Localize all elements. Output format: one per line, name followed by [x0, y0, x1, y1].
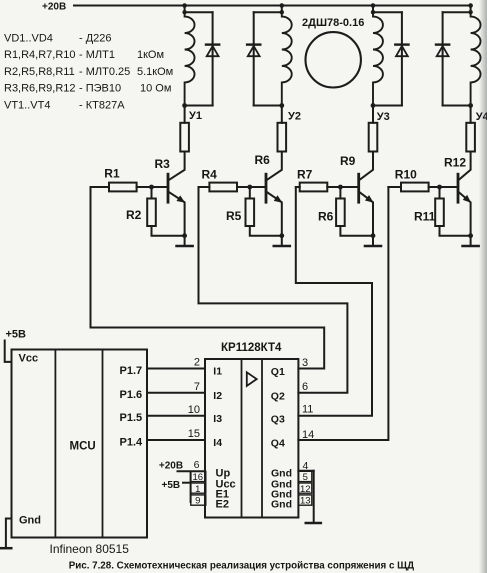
svg-text:R10: R10 — [395, 168, 417, 182]
svg-text:Q2: Q2 — [271, 390, 285, 402]
svg-text:Рис. 7.28. Схемотехническая ре: Рис. 7.28. Схемотехническая реализация у… — [69, 560, 414, 571]
svg-text:I4: I4 — [213, 437, 222, 449]
svg-text:R12: R12 — [444, 155, 466, 169]
svg-text:9: 9 — [195, 496, 200, 507]
svg-text:15: 15 — [188, 428, 200, 440]
svg-text:6: 6 — [302, 381, 308, 393]
svg-text:2ДШ78-0.16: 2ДШ78-0.16 — [302, 17, 364, 29]
svg-text:+5В: +5В — [6, 329, 27, 341]
svg-text:+20В: +20В — [159, 461, 183, 472]
svg-text:Infineon 80515: Infineon 80515 — [50, 542, 130, 556]
svg-text:MCU: MCU — [70, 441, 96, 453]
svg-text:10: 10 — [188, 404, 200, 416]
svg-text:+5В: +5В — [162, 480, 181, 491]
svg-text:12: 12 — [300, 484, 311, 495]
svg-text:У1: У1 — [189, 110, 202, 122]
svg-text:Gnd: Gnd — [19, 515, 41, 527]
svg-text:10 Ом: 10 Ом — [140, 83, 171, 95]
svg-text:R1,R4,R7,R10: R1,R4,R7,R10 — [4, 49, 76, 61]
svg-text:У4: У4 — [476, 111, 487, 123]
svg-text:I2: I2 — [213, 390, 222, 402]
svg-text:Gnd: Gnd — [271, 499, 292, 511]
svg-text:- МЛТ0.25: - МЛТ0.25 — [79, 66, 130, 78]
svg-text:1кОм: 1кОм — [137, 49, 164, 61]
svg-text:I3: I3 — [213, 413, 222, 425]
svg-text:1: 1 — [195, 484, 200, 495]
svg-text:- КТ827А: - КТ827А — [79, 100, 125, 112]
svg-text:P1.4: P1.4 — [120, 436, 144, 448]
svg-text:R9: R9 — [340, 154, 356, 168]
svg-text:+20В: +20В — [42, 2, 66, 13]
svg-text:Q1: Q1 — [271, 366, 285, 378]
svg-text:6: 6 — [194, 459, 200, 471]
svg-text:- МЛТ1: - МЛТ1 — [79, 49, 115, 61]
svg-text:Q4: Q4 — [271, 438, 285, 450]
svg-text:Vcc: Vcc — [19, 353, 39, 365]
svg-text:P1.5: P1.5 — [120, 412, 143, 424]
svg-text:VT1..VT4: VT1..VT4 — [4, 100, 50, 112]
svg-text:КР1128КТ4: КР1128КТ4 — [221, 342, 282, 354]
svg-text:R1: R1 — [104, 167, 120, 181]
svg-text:R3: R3 — [155, 157, 171, 171]
svg-text:Q3: Q3 — [271, 413, 285, 425]
svg-text:4: 4 — [303, 460, 309, 472]
svg-text:R2,R5,R8,R11: R2,R5,R8,R11 — [4, 66, 75, 78]
svg-text:3: 3 — [302, 357, 308, 369]
svg-text:R4: R4 — [202, 168, 218, 182]
svg-text:R6: R6 — [255, 153, 271, 167]
svg-text:- ПЭВ10: - ПЭВ10 — [79, 83, 121, 95]
svg-text:5.1кОм: 5.1кОм — [137, 66, 173, 78]
svg-text:R6: R6 — [318, 210, 334, 224]
svg-text:14: 14 — [302, 429, 314, 441]
svg-text:У2: У2 — [288, 111, 301, 123]
svg-text:R3,R6,R9,R12: R3,R6,R9,R12 — [4, 83, 76, 95]
svg-text:R7: R7 — [297, 168, 313, 182]
svg-text:11: 11 — [302, 404, 313, 416]
svg-text:5: 5 — [303, 472, 308, 483]
svg-text:VD1..VD4: VD1..VD4 — [4, 32, 53, 44]
svg-text:16: 16 — [193, 472, 204, 483]
svg-text:I1: I1 — [213, 366, 222, 378]
svg-text:13: 13 — [300, 496, 311, 507]
svg-text:7: 7 — [194, 381, 200, 393]
svg-text:P1.7: P1.7 — [120, 365, 143, 377]
svg-text:R11: R11 — [414, 210, 436, 224]
svg-text:У3: У3 — [377, 111, 390, 123]
svg-text:P1.6: P1.6 — [120, 389, 143, 401]
svg-text:2: 2 — [194, 357, 200, 369]
svg-text:E2: E2 — [216, 499, 229, 511]
svg-text:- Д226: - Д226 — [79, 32, 112, 44]
svg-text:R5: R5 — [226, 209, 242, 223]
svg-text:R2: R2 — [126, 208, 142, 222]
